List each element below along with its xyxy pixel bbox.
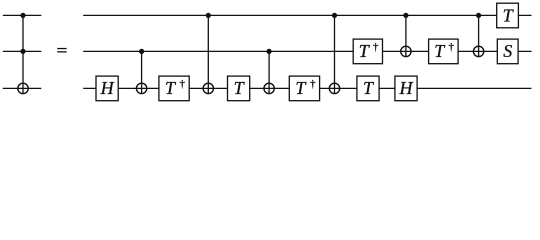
wire q0 left xyxy=(3,14,42,16)
gate H1 q2 xyxy=(96,76,118,101)
wire q1 right xyxy=(83,50,531,52)
gate Tdg4 q1 xyxy=(429,39,459,64)
svg-text:†: † xyxy=(448,41,454,53)
svg-text:S: S xyxy=(503,41,512,61)
wire q2 right xyxy=(83,87,531,89)
gate Tdg3 q1 xyxy=(353,39,382,64)
cnot target toffoli q2 xyxy=(18,83,28,93)
control dot toffoli q0 xyxy=(20,13,25,18)
wire cnot5 connector q0-q1 xyxy=(405,15,407,56)
control dot cnot3 q1 xyxy=(267,49,272,54)
svg-text:†: † xyxy=(180,78,186,90)
control dot cnot2 q0 xyxy=(206,13,211,18)
cnot target cnot5 q1 xyxy=(401,46,411,56)
wire cnot6 connector q0-q1 xyxy=(478,15,480,56)
svg-text:H: H xyxy=(100,78,115,98)
gate Tdg1 q2 xyxy=(159,76,189,101)
wire toffoli connector xyxy=(22,15,24,93)
gate H2 q2 xyxy=(395,76,417,101)
wire q0 right xyxy=(83,14,531,16)
cnot target cnot3 q2 xyxy=(264,83,274,93)
control dot toffoli q1 xyxy=(20,49,25,54)
cnot target cnot2 q2 xyxy=(203,83,213,93)
svg-text:†: † xyxy=(310,78,316,90)
gate Tdg2 q2 xyxy=(289,76,319,101)
wire cnot4 connector q0-q2 xyxy=(334,15,336,93)
gate T2 q2 xyxy=(357,76,379,101)
svg-text:H: H xyxy=(399,78,414,98)
control dot cnot1 q1 xyxy=(139,49,144,54)
cnot target cnot6 q1 xyxy=(473,46,483,56)
cnot target cnot1 q2 xyxy=(136,83,146,93)
control dot cnot5 q0 xyxy=(403,13,408,18)
svg-text:†: † xyxy=(373,41,379,53)
wire q2 left xyxy=(3,87,42,89)
gate T1 q2 xyxy=(228,76,250,101)
wire cnot1 connector q1-q2 xyxy=(141,51,143,93)
cnot target cnot4 q2 xyxy=(329,83,339,93)
gate T3 q0 xyxy=(497,3,519,28)
control dot cnot4 q0 xyxy=(332,13,337,18)
wire q1 left xyxy=(3,50,42,52)
control dot cnot6 q0 xyxy=(476,13,481,18)
equals sign xyxy=(57,49,66,52)
gate S q1 xyxy=(497,39,518,64)
wire cnot3 connector q1-q2 xyxy=(268,51,270,93)
wire cnot2 connector q0-q2 xyxy=(207,15,209,93)
